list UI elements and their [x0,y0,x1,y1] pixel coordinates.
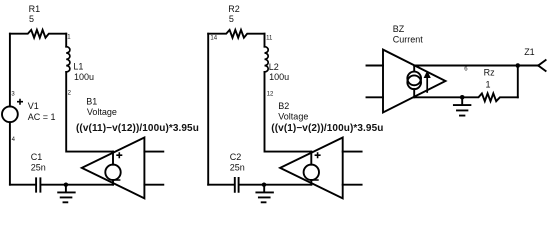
svg-text:V1: V1 [28,101,39,111]
svg-text:Rz: Rz [484,68,495,78]
svg-text:Voltage: Voltage [278,112,308,122]
svg-text:R2: R2 [228,4,240,14]
svg-text:B1: B1 [86,96,97,106]
svg-text:25n: 25n [230,163,245,173]
svg-text:100u: 100u [74,72,94,82]
svg-text:12: 12 [267,91,274,97]
svg-text:BZ: BZ [393,24,405,34]
svg-text:R1: R1 [29,4,41,14]
svg-text:Current: Current [393,35,424,45]
svg-text:5: 5 [29,14,34,24]
svg-text:1: 1 [486,80,491,90]
svg-text:14: 14 [210,35,217,41]
svg-text:Voltage: Voltage [87,107,117,117]
svg-text:100u: 100u [269,72,289,82]
svg-text:((v(11)−v(12))/100u)*3.95u: ((v(11)−v(12))/100u)*3.95u [76,123,199,134]
svg-text:B2: B2 [278,101,289,111]
svg-text:AC = 1: AC = 1 [28,112,56,122]
svg-text:L2: L2 [269,62,279,72]
svg-text:C1: C1 [31,152,43,162]
svg-text:C2: C2 [230,152,242,162]
svg-text:((v(1)−v(2))/100u)*3.95u: ((v(1)−v(2))/100u)*3.95u [271,123,383,134]
svg-text:L1: L1 [73,61,83,71]
svg-text:25n: 25n [31,163,46,173]
svg-text:Z1: Z1 [524,47,535,57]
svg-text:5: 5 [229,14,234,24]
svg-text:11: 11 [266,35,273,41]
